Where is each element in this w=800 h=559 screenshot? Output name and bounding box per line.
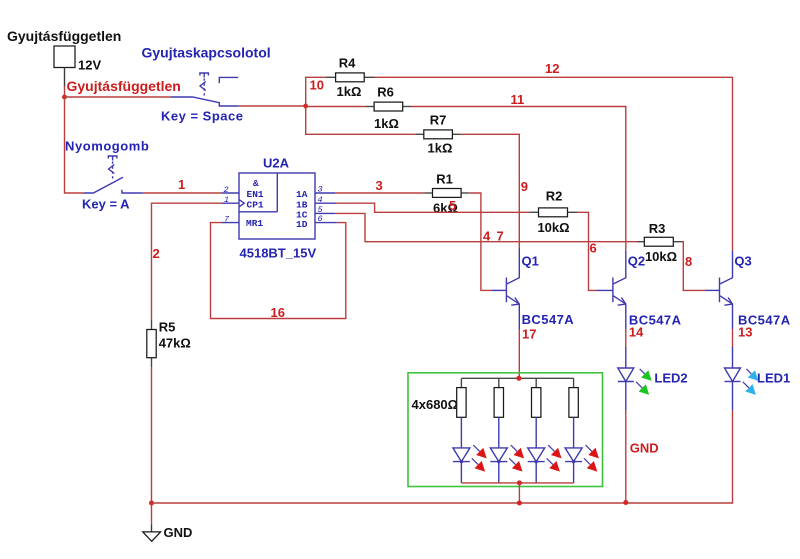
svg-text:Q3: Q3 — [734, 254, 751, 269]
resistor R4 1kΩ — [326, 56, 375, 100]
wire net10 up to R4 — [306, 77, 326, 106]
wire net 4 — [336, 203, 530, 243]
wire net 12 — [375, 61, 733, 251]
pin 5 1C — [315, 205, 336, 215]
svg-text:R2: R2 — [546, 189, 563, 204]
svg-text:5: 5 — [449, 198, 456, 213]
svg-text:1kΩ: 1kΩ — [337, 84, 362, 99]
transistor Q2 BC547A — [596, 251, 681, 340]
wire net 3 — [335, 178, 424, 193]
svg-text:GND: GND — [164, 525, 193, 540]
wire Q2 emitter to LED2 — [625, 329, 627, 368]
svg-text:BC547A: BC547A — [522, 312, 575, 327]
wire net 5 R1 to Q1 base — [449, 193, 491, 290]
svg-text:3: 3 — [318, 185, 323, 195]
svg-text:R3: R3 — [649, 221, 666, 236]
resistor R5 47kΩ — [147, 320, 191, 368]
svg-text:R6: R6 — [377, 85, 394, 100]
node junction bus left — [149, 501, 154, 506]
LED D3 red — [528, 417, 562, 483]
svg-text:R1: R1 — [436, 172, 453, 187]
resistor R2 10kΩ — [530, 189, 577, 236]
wire net 1 — [143, 177, 222, 193]
wire Q3 emitter to LED1 — [732, 329, 734, 368]
svg-text:R7: R7 — [430, 113, 447, 128]
svg-text:Gyujtaskapcsolotol: Gyujtaskapcsolotol — [142, 45, 271, 61]
svg-text:1kΩ: 1kΩ — [374, 116, 399, 131]
resistor RA1 680Ω — [457, 378, 466, 417]
wire R5 to ground bus — [151, 368, 153, 503]
ground — [143, 503, 193, 541]
resistor RA3 680Ω — [532, 378, 541, 417]
svg-text:10kΩ: 10kΩ — [537, 220, 569, 235]
svg-text:1kΩ: 1kΩ — [428, 141, 453, 156]
switch S1 Key=Space — [142, 45, 271, 124]
wire source lead — [64, 68, 66, 98]
resistor R7 1kΩ — [416, 113, 461, 156]
svg-text:Gyujtásfüggetlen: Gyujtásfüggetlen — [7, 28, 121, 44]
svg-text:1D: 1D — [296, 219, 308, 230]
pin 1 CP1 — [222, 195, 239, 205]
wire LED bank top bus — [461, 377, 573, 379]
LED D2 red — [490, 417, 524, 483]
LED LED2 — [618, 368, 688, 395]
resistor RA2 680Ω — [494, 378, 503, 417]
node junction Q1 emitter to bank — [516, 376, 521, 381]
svg-text:EN1: EN1 — [247, 189, 264, 200]
svg-text:Gyujtásfüggetlen: Gyujtásfüggetlen — [67, 78, 181, 94]
wire LED1 to bus — [732, 382, 734, 504]
wire LED bank bottom bus — [461, 480, 573, 505]
svg-text:10kΩ: 10kΩ — [645, 249, 677, 264]
pin 2 EN1 — [221, 185, 239, 195]
svg-text:7: 7 — [497, 229, 504, 244]
LED D4 red — [565, 417, 599, 483]
svg-text:6: 6 — [590, 241, 597, 256]
svg-text:Q1: Q1 — [522, 254, 539, 269]
svg-text:11: 11 — [511, 92, 525, 107]
voltage source V1 12V — [7, 28, 121, 73]
wire net 2 from CP1 to R5 — [152, 203, 223, 320]
wire net to Key=Space — [65, 96, 171, 98]
LED D1 red — [453, 417, 487, 483]
resistor R1 6kΩ — [424, 172, 469, 216]
svg-text:LED1: LED1 — [757, 371, 790, 386]
svg-text:2: 2 — [224, 185, 229, 195]
wire Q1 emitter to LED bank — [518, 329, 520, 378]
node junction at 12V branch — [62, 95, 67, 100]
wire net 11 — [411, 92, 626, 251]
svg-text:2: 2 — [153, 246, 160, 261]
svg-text:17: 17 — [522, 327, 536, 342]
pin 7 MR1 — [222, 215, 239, 225]
svg-text:1A: 1A — [296, 189, 308, 200]
svg-text:GND: GND — [630, 441, 659, 456]
svg-text:R4: R4 — [339, 56, 356, 71]
LED LED1 — [725, 368, 791, 395]
svg-text:Q2: Q2 — [628, 254, 645, 269]
svg-text:&: & — [253, 178, 259, 189]
pin 3 1A — [315, 185, 335, 195]
wire net 8 R3 to Q3 base — [682, 242, 706, 291]
wire net 9 — [460, 134, 528, 248]
svg-text:1: 1 — [178, 177, 185, 192]
transistor Q3 BC547A — [705, 251, 791, 340]
svg-text:R5: R5 — [159, 320, 176, 335]
pin 6 1D — [315, 214, 337, 224]
svg-text:Key = A: Key = A — [82, 197, 130, 212]
svg-text:12V: 12V — [78, 58, 101, 73]
svg-text:7: 7 — [224, 215, 230, 225]
pin 4 1B — [315, 195, 336, 205]
svg-text:Nyomogomb: Nyomogomb — [65, 139, 149, 154]
svg-text:4518BT_15V: 4518BT_15V — [240, 246, 317, 261]
svg-text:14: 14 — [629, 325, 644, 340]
svg-text:10: 10 — [310, 78, 324, 93]
svg-text:1: 1 — [224, 195, 229, 205]
svg-text:U2A: U2A — [263, 156, 290, 171]
op IC U2A 4518BT_15V — [239, 156, 316, 261]
resistor R6 1kΩ — [366, 85, 411, 132]
svg-text:LED2: LED2 — [654, 371, 687, 386]
transistor Q1 BC547A — [491, 249, 574, 342]
svg-text:CP1: CP1 — [247, 200, 264, 211]
wire down to Nyomogomb — [65, 97, 85, 193]
svg-text:4x680Ω: 4x680Ω — [412, 397, 459, 412]
switch S2 Key=A Nyomogomb — [65, 139, 149, 212]
wire net 7 — [336, 213, 589, 243]
resistor R3 10kΩ — [637, 221, 682, 264]
svg-text:MR1: MR1 — [246, 218, 263, 229]
svg-text:9: 9 — [521, 179, 528, 194]
svg-text:8: 8 — [685, 254, 692, 269]
svg-text:16: 16 — [271, 305, 285, 320]
resistor RA4 680Ω — [569, 378, 578, 417]
LED bank green box — [408, 373, 603, 487]
wire net 6 R2 to Q2 base and R3 — [577, 212, 637, 290]
svg-text:12: 12 — [545, 61, 559, 76]
wire net 16 loop MR1 to 1D — [211, 223, 346, 320]
wire net 10 junction — [239, 78, 324, 109]
wire net10 down to R7 — [306, 106, 416, 134]
svg-text:47kΩ: 47kΩ — [159, 336, 191, 351]
svg-text:13: 13 — [738, 325, 752, 340]
svg-text:6: 6 — [318, 214, 323, 224]
wire LED2 to bus — [623, 382, 628, 506]
svg-text:3: 3 — [376, 178, 383, 193]
wire bottom bus — [152, 502, 733, 504]
svg-text:Key = Space: Key = Space — [161, 109, 243, 124]
wire net10 to R6 — [306, 106, 366, 108]
svg-text:4: 4 — [318, 195, 323, 205]
